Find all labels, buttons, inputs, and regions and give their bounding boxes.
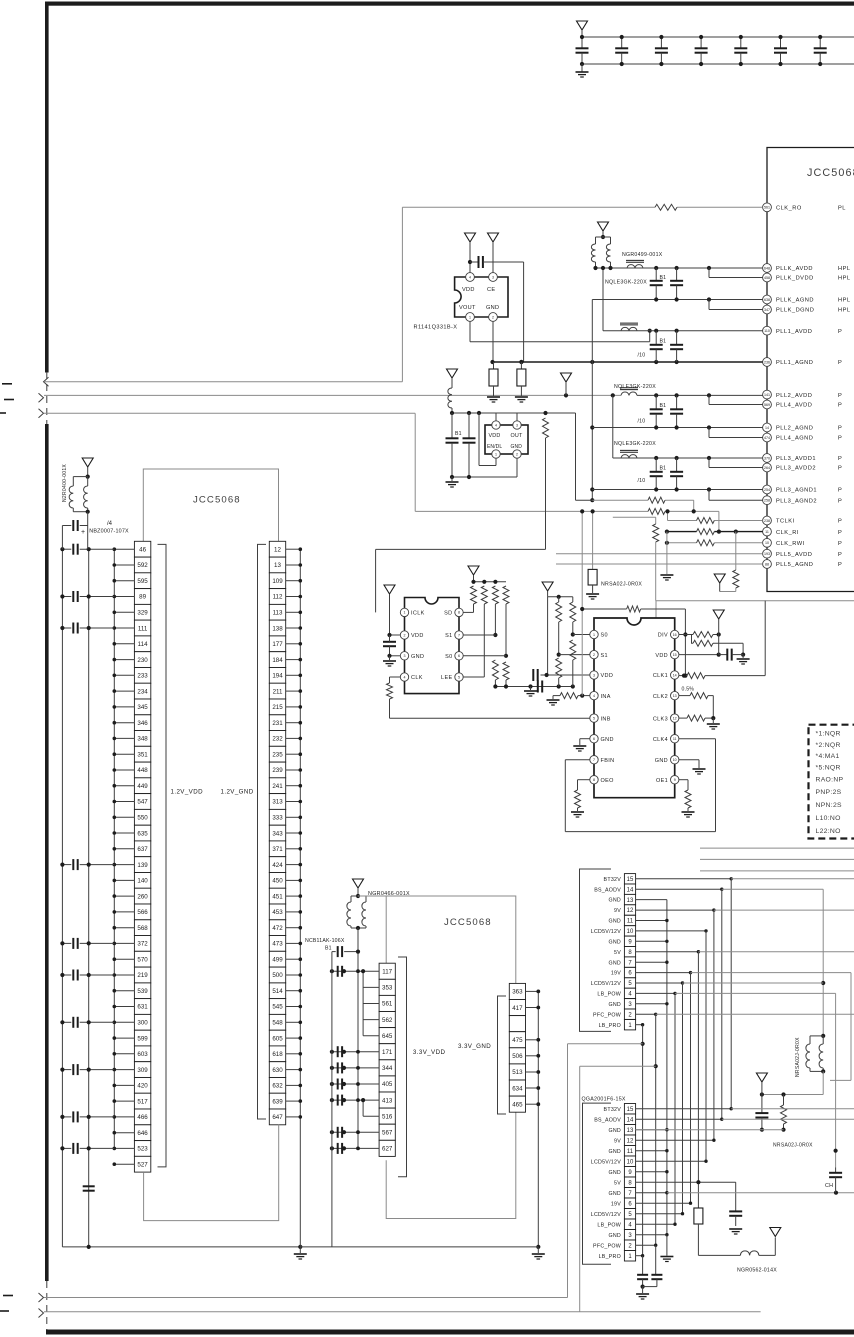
wire U5 DIV column <box>684 609 686 676</box>
wire power fan-out buses <box>636 877 733 1257</box>
svg-text:561: 561 <box>382 1001 393 1008</box>
svg-text:347: 347 <box>764 308 770 312</box>
svg-text:599: 599 <box>137 1035 148 1042</box>
power symbol (NGR0562) <box>770 1228 781 1237</box>
IC U4 pin 2 VDD <box>400 631 408 639</box>
wire PLL2_AGND rail <box>592 427 762 429</box>
connector 1.2V_VDD pin column <box>134 541 150 1172</box>
resistor (U5 S1 pull-down) <box>556 658 562 678</box>
IC U5 pin 15 VDD <box>671 650 679 658</box>
svg-text:117: 117 <box>382 969 392 976</box>
IC U5 pin 6 GND <box>590 735 598 743</box>
resistor (DIV pull-up B) <box>693 640 713 646</box>
IC U4 pin 1 ICLK <box>400 608 408 616</box>
svg-text:466: 466 <box>137 1114 148 1121</box>
ground (5V filter) <box>729 1228 742 1230</box>
resistor (CLK2 series) <box>679 695 690 697</box>
IC U4 pin 7 S1 <box>455 631 463 639</box>
svg-text:ICLK: ICLK <box>411 611 425 617</box>
wire U5 CLK1 row <box>679 675 687 677</box>
wire BS_AODV lower row extension <box>722 1118 854 1120</box>
svg-text:SD: SD <box>444 611 452 617</box>
IC U3 pin 4 VDD <box>495 413 497 421</box>
svg-text:/10: /10 <box>638 419 646 425</box>
svg-text:15: 15 <box>627 1107 634 1113</box>
svg-text:9V: 9V <box>614 1138 621 1144</box>
svg-text:CLK3: CLK3 <box>653 716 668 722</box>
svg-text:OUT: OUT <box>511 433 523 439</box>
svg-text:12: 12 <box>274 546 281 553</box>
svg-text:CLK4: CLK4 <box>653 737 668 743</box>
svg-text:BS_AODV: BS_AODV <box>594 887 621 893</box>
svg-text:B1: B1 <box>660 275 667 281</box>
svg-text:12: 12 <box>627 908 634 914</box>
net arrow (input, CLK_RO net) <box>44 377 49 386</box>
wire BS filter rail <box>822 1071 824 1094</box>
svg-text:110: 110 <box>764 329 770 333</box>
wire PFC_POW row extension <box>656 1013 854 1015</box>
page border top <box>46 2 854 6</box>
svg-text:PLL3_AVDD2: PLL3_AVDD2 <box>776 466 816 472</box>
svg-text:635: 635 <box>137 830 148 837</box>
wire analog ground bus (vertical) <box>591 300 593 501</box>
power symbol (PLL2 rail tie) <box>561 373 572 382</box>
svg-text:545: 545 <box>272 1004 283 1011</box>
IC U1 pin 238 TCLKI <box>763 516 843 525</box>
svg-text:PLL5_AVDD: PLL5_AVDD <box>776 552 812 558</box>
capacitor (1.2V input, polarized) <box>87 512 89 550</box>
wire LB_PRO to left edge <box>44 1297 568 1299</box>
svg-text:B1: B1 <box>455 431 462 437</box>
svg-text:637: 637 <box>137 846 148 853</box>
wire U4 GND pin <box>390 655 401 657</box>
svg-text:550: 550 <box>137 815 148 822</box>
svg-text:NCB11AK-106X: NCB11AK-106X <box>305 938 345 944</box>
IC U3 pin 1 EN/DL <box>492 450 500 458</box>
IC U5 pin 4 INA <box>590 691 598 699</box>
wire U5 DIV pin row <box>679 634 685 636</box>
svg-text:647: 647 <box>272 1114 283 1121</box>
wire PLL1_AGND rail <box>493 361 763 363</box>
IC U2 pin 3 CE <box>489 273 498 282</box>
svg-text:P: P <box>838 329 842 335</box>
wire PFC_POW to left edge <box>44 1311 761 1313</box>
svg-text:GND: GND <box>608 1170 621 1176</box>
svg-text:GND: GND <box>608 960 621 966</box>
resistor (pull, x=655 chain) <box>613 516 656 518</box>
wire U3 EN loop <box>495 458 497 465</box>
svg-text:HPL: HPL <box>838 308 851 314</box>
svg-text:1: 1 <box>469 315 471 319</box>
wire GND bus (connectors) <box>636 900 669 1237</box>
capacitor (U5 VDD left) <box>532 669 534 681</box>
capacitor (BS rail) <box>761 1095 763 1114</box>
IC U1 pin 561 CLK_RO <box>763 203 846 212</box>
svg-text:TCLKI: TCLKI <box>776 519 795 525</box>
note box (component table) <box>809 725 854 839</box>
svg-text:7: 7 <box>593 758 595 762</box>
IC U3 pin 3 OUT <box>516 413 518 421</box>
net arrow (output, PFC_POW) <box>39 1309 44 1318</box>
svg-text:NBZ0007-107X: NBZ0007-107X <box>89 529 129 535</box>
connector P1 (upper) bracket <box>580 869 612 1031</box>
resistor (ICLK pull) <box>543 418 549 438</box>
svg-text:S0: S0 <box>445 654 452 660</box>
svg-text:12: 12 <box>673 716 677 720</box>
svg-text:211: 211 <box>273 688 283 695</box>
svg-text:GND: GND <box>601 737 614 743</box>
svg-text:PL: PL <box>838 206 846 212</box>
svg-text:14: 14 <box>765 426 769 430</box>
svg-text:S0: S0 <box>601 633 608 639</box>
svg-text:344: 344 <box>382 1065 393 1072</box>
svg-text:449: 449 <box>137 783 148 790</box>
resistor (AGND sense) <box>648 497 665 503</box>
svg-text:6: 6 <box>593 737 595 741</box>
svg-text:184: 184 <box>272 657 283 664</box>
power symbol (PLLK supply) <box>598 222 609 231</box>
svg-text:4: 4 <box>404 675 406 679</box>
svg-text:14: 14 <box>627 1117 634 1123</box>
svg-text:10: 10 <box>765 541 769 545</box>
svg-text:GND: GND <box>608 919 621 925</box>
svg-text:472: 472 <box>272 925 283 932</box>
svg-text:*2:NQR: *2:NQR <box>816 742 841 749</box>
svg-text:11: 11 <box>627 1149 634 1155</box>
svg-text:2: 2 <box>404 633 406 637</box>
svg-text:N2R0400-001X: N2R0400-001X <box>62 464 68 502</box>
capacitor (U4 bypass) <box>383 641 396 643</box>
power symbol (1.2V supply) <box>82 458 93 467</box>
svg-text:46: 46 <box>139 546 146 553</box>
svg-text:PLL4_AVDD: PLL4_AVDD <box>776 403 812 409</box>
resistor (U5 S0 pull-up) <box>570 602 576 622</box>
svg-text:P: P <box>838 360 842 366</box>
svg-text:PLL3_AVDD1: PLL3_AVDD1 <box>776 456 816 462</box>
svg-text:5: 5 <box>458 675 460 679</box>
svg-text:NGR0499-001X: NGR0499-001X <box>622 252 663 258</box>
svg-text:139: 139 <box>137 862 148 869</box>
IC U4 pin 6 S0 <box>455 652 463 660</box>
svg-text:P: P <box>838 466 842 472</box>
svg-text:3: 3 <box>593 673 595 677</box>
IC U1 pin 370 PLL3_AVDD1 <box>763 454 843 463</box>
svg-text:PLLK_DVDD: PLLK_DVDD <box>776 276 814 282</box>
IC U4 pin 3 GND <box>400 652 408 660</box>
svg-text:GND: GND <box>608 1191 621 1197</box>
svg-text:309: 309 <box>137 1067 148 1074</box>
svg-text:PLL1_AGND: PLL1_AGND <box>776 360 813 366</box>
wire U5 OEO pull-down <box>578 779 590 781</box>
svg-text:562: 562 <box>382 1017 393 1024</box>
capacitor B1 (PLL2 #1) <box>655 395 657 409</box>
svg-text:363: 363 <box>512 989 523 996</box>
svg-text:4: 4 <box>593 694 595 698</box>
svg-text:PLL3_AGND1: PLL3_AGND1 <box>776 488 817 494</box>
svg-text:14: 14 <box>627 887 634 893</box>
wire 1.2V VDD bus + pin stubs <box>113 547 135 1166</box>
svg-text:260: 260 <box>137 893 148 900</box>
svg-text:111: 111 <box>138 625 148 632</box>
wire PLL1_AVDD rail <box>603 330 763 332</box>
net arrow (input, TCLK net) <box>39 409 44 418</box>
svg-text:16: 16 <box>673 633 677 637</box>
wire U4 strap rail <box>474 581 507 583</box>
svg-text:13: 13 <box>627 898 634 904</box>
IC U1 pin 648 PLLK_AVDD <box>763 264 851 273</box>
inductor pair N2R0400-001X <box>73 476 87 478</box>
svg-text:345: 345 <box>137 704 148 711</box>
power symbol (CLK_RI pull-up) <box>714 574 725 583</box>
svg-text:4: 4 <box>469 275 471 279</box>
svg-text:VDD: VDD <box>489 433 501 439</box>
wire PLL2_AVDD rail <box>637 394 763 396</box>
svg-text:10: 10 <box>627 1159 634 1165</box>
wire PFC route (left) <box>654 1064 658 1068</box>
svg-text:9V: 9V <box>614 908 621 914</box>
svg-text:465: 465 <box>512 1101 523 1108</box>
svg-text:13: 13 <box>274 562 281 569</box>
connector 3.3V_GND pin column <box>509 983 525 1112</box>
IC U1 pin 110 PLL1_AVDD <box>763 326 843 335</box>
svg-text:VOUT: VOUT <box>459 305 476 311</box>
IC U5 pin 11 CLK4 <box>671 735 679 743</box>
IC U1 pin 10 CLK_RWI <box>763 538 843 547</box>
IC U1 pin 236 PLL1_AGND <box>763 358 843 367</box>
wire 3.3V sub-bus (353/561/562/645) <box>362 971 364 1035</box>
IC U1 pin 569 PLL4_AVDD <box>763 400 843 409</box>
power symbol (U2 VDD) <box>465 233 476 242</box>
svg-text:3: 3 <box>492 275 494 279</box>
svg-text:11: 11 <box>673 737 677 741</box>
svg-text:HPL: HPL <box>838 298 851 304</box>
svg-text:GND: GND <box>608 1128 621 1134</box>
wire U3 OUT to AGND sense <box>575 413 577 500</box>
svg-text:194: 194 <box>272 673 283 680</box>
svg-text:NRSA02J-0R0X: NRSA02J-0R0X <box>795 1037 801 1077</box>
ground (bead) <box>586 593 599 595</box>
wire 1.2V ground return rail <box>62 1246 300 1248</box>
svg-text:GND: GND <box>511 444 523 450</box>
svg-text:LB_POW: LB_POW <box>597 1222 621 1228</box>
ground (3.3V block) <box>536 1245 540 1249</box>
svg-text:114: 114 <box>138 641 148 648</box>
IC U5 pin 14 CLK1 <box>671 671 679 679</box>
IC U1 pin 347 PLLK_DGND <box>763 305 851 314</box>
wire 3.3V GND bus <box>526 990 541 1247</box>
svg-text:499: 499 <box>272 956 283 963</box>
wire PLL3_AVDD1 rail <box>613 457 763 459</box>
wire CLK_RO net (left input to pin 561) <box>44 381 402 383</box>
ground (U3) <box>451 477 453 481</box>
IC U3 body <box>485 425 528 454</box>
svg-text:HPL: HPL <box>838 276 851 282</box>
capacitor (top bank #3) <box>660 37 662 48</box>
svg-text:R1141Q331B-X: R1141Q331B-X <box>414 325 458 331</box>
bracket 3.3V_GND <box>498 996 507 1114</box>
wire 3.3V outline loop <box>358 896 516 1219</box>
resistor network (0-ohm to ground #1) <box>493 362 495 369</box>
svg-text:595: 595 <box>137 578 148 585</box>
svg-text:2: 2 <box>593 653 595 657</box>
wire LB_POW row extension <box>675 992 836 994</box>
wire PLL2/PLL4 AVDD net <box>44 394 621 396</box>
svg-text:GND: GND <box>608 898 621 904</box>
IC U2 R1141Q331B-X body <box>455 277 508 317</box>
svg-text:PLLK_DGND: PLLK_DGND <box>776 308 814 314</box>
svg-text:351: 351 <box>137 751 148 758</box>
capacitor (PLL1 #2) <box>676 331 678 345</box>
svg-text:LCD5V/12V: LCD5V/12V <box>591 929 621 935</box>
ground (OEO) <box>571 811 584 813</box>
power symbol (U3 VDD) <box>447 369 458 378</box>
wire PLL5_AGND row <box>556 563 763 565</box>
capacitor B1 (PLLK #1) <box>655 268 657 281</box>
resistor (BS rail bleed) <box>783 1095 785 1106</box>
top supply rail <box>582 36 854 38</box>
ground (U5 INA) <box>552 696 554 699</box>
svg-text:639: 639 <box>272 1098 283 1105</box>
svg-text:P: P <box>838 519 842 525</box>
svg-text:NQLE3GK-220X: NQLE3GK-220X <box>614 441 656 447</box>
svg-text:236: 236 <box>764 360 770 364</box>
svg-text:112: 112 <box>273 594 283 601</box>
svg-text:RAO:NP: RAO:NP <box>816 777 844 784</box>
svg-text:3: 3 <box>516 423 518 427</box>
svg-text:627: 627 <box>382 1146 393 1153</box>
capacitor (strap filter) <box>537 681 539 693</box>
svg-text:566: 566 <box>137 909 148 916</box>
svg-text:GND: GND <box>608 1002 621 1008</box>
svg-text:VDD: VDD <box>411 633 424 639</box>
capacitor (PFC filter) <box>655 1245 657 1274</box>
ground (U5 VDD right) <box>742 655 744 658</box>
resistor (U5 DIV feedback top) <box>582 608 626 610</box>
svg-text:*5:NQR: *5:NQR <box>816 764 841 771</box>
svg-text:*1:NQR: *1:NQR <box>816 731 841 738</box>
svg-text:233: 233 <box>137 673 148 680</box>
resistor (CLK_RI pull-up) <box>735 532 737 570</box>
svg-text:DIV: DIV <box>658 633 668 639</box>
wire PLLK_DGND stub <box>708 300 710 310</box>
wire U4 CLK to U5 INB <box>389 699 391 718</box>
IC U2 pin 4 VDD <box>466 273 475 282</box>
wire ground rail extension <box>300 1246 538 1248</box>
svg-text:PLL4_AGND: PLL4_AGND <box>776 436 813 442</box>
svg-text:NRSA02J-0R0X: NRSA02J-0R0X <box>601 582 642 588</box>
bracket 1.2V_VDD <box>158 544 167 1167</box>
svg-text:239: 239 <box>272 767 283 774</box>
wire PLLK_DVDD stub <box>708 268 710 278</box>
svg-text:630: 630 <box>272 1067 283 1074</box>
svg-text:177: 177 <box>272 641 283 648</box>
svg-text:GND: GND <box>608 1149 621 1155</box>
wire column bottoms link <box>144 1125 279 1221</box>
svg-text:618: 618 <box>272 1051 283 1058</box>
wire AGND sense line (to TCLK net) <box>592 499 648 501</box>
IC U4 pin 5 LEE <box>455 673 463 681</box>
svg-text:11: 11 <box>765 530 769 534</box>
capacitor (U3 #2) <box>468 413 470 438</box>
wire PLL5_AVDD row <box>556 553 763 555</box>
svg-text:500: 500 <box>272 972 283 979</box>
ferrite bead NQLE3GK-220X (PLLK) <box>627 265 643 268</box>
svg-text:3.3V_VDD: 3.3V_VDD <box>413 1049 446 1056</box>
resistor network (0-ohm to ground #2) <box>520 362 522 369</box>
IC U1 pin 264 PLL3_AVDD2 <box>763 463 843 472</box>
IC U1 pin 474 PLL4_AGND <box>763 433 843 442</box>
resistor (DIV pull-up A) <box>693 632 713 638</box>
wire 3.3V sub-bus (413/516) <box>362 1100 364 1116</box>
power symbol (U2 CE) <box>488 233 499 242</box>
svg-text:474: 474 <box>764 436 770 440</box>
IC U5 pin 13 CLK2 <box>671 691 679 699</box>
svg-text:605: 605 <box>272 1035 283 1042</box>
svg-text:371: 371 <box>272 846 283 853</box>
svg-text:517: 517 <box>137 1098 148 1105</box>
svg-text:BS_AODV: BS_AODV <box>594 1117 621 1123</box>
IC U3 pin 2 GND <box>513 450 521 458</box>
capacitor (top bank #4) <box>700 37 702 48</box>
svg-text:JCC5068: JCC5068 <box>807 167 854 179</box>
ground (CLK3) <box>712 718 714 723</box>
power symbol (top cap bank) <box>577 21 588 30</box>
svg-text:NQLE3GK-220X: NQLE3GK-220X <box>605 280 647 286</box>
svg-text:450: 450 <box>272 878 283 885</box>
svg-text:PLLK_AGND: PLLK_AGND <box>776 298 814 304</box>
svg-text:631: 631 <box>137 1004 148 1011</box>
wire U5 S0 row <box>573 634 590 636</box>
svg-text:3.3V_GND: 3.3V_GND <box>458 1043 491 1050</box>
svg-text:CLK_RI: CLK_RI <box>776 530 799 536</box>
svg-text:HPL: HPL <box>838 266 851 272</box>
wire 9V row extension <box>714 909 854 911</box>
svg-text:LB_PRO: LB_PRO <box>599 1023 621 1029</box>
svg-text:19V: 19V <box>611 1201 621 1207</box>
resistor (series, CLK_RO) <box>655 204 677 210</box>
svg-text:632: 632 <box>272 1083 283 1090</box>
resistor (U5 INA pull) <box>560 693 578 699</box>
IC U5 pin 1 S0 <box>590 630 598 638</box>
svg-text:P: P <box>838 552 842 558</box>
capacitor B1 (U3 #1) <box>451 413 453 438</box>
capacitors (1.2V decoupling) + outer buses <box>60 544 114 1247</box>
capacitor (5V filter) <box>735 1182 737 1211</box>
ground (filter caps) <box>642 1287 644 1293</box>
resistor (CLK3 series) <box>679 717 687 719</box>
wire U5 INA feed <box>581 511 583 695</box>
svg-text:FBIN: FBIN <box>601 758 615 764</box>
svg-text:QGA2001F6-15X: QGA2001F6-15X <box>582 1097 626 1103</box>
resistor (S1 pull-up) <box>492 586 498 604</box>
wire PLL4_AVDD stub <box>708 395 710 404</box>
svg-text:P: P <box>838 488 842 494</box>
svg-text:INA: INA <box>601 694 611 700</box>
svg-text:GND: GND <box>608 939 621 945</box>
svg-text:PLL5_AGND: PLL5_AGND <box>776 562 813 568</box>
svg-text:215: 215 <box>272 704 283 711</box>
wire PLL3_AVDD2 stub <box>708 458 710 468</box>
svg-text:1: 1 <box>495 452 497 456</box>
svg-text:570: 570 <box>137 956 148 963</box>
wire TCLK input net (wire3) <box>44 412 415 414</box>
capacitor (top bank #2) <box>621 37 623 48</box>
connector P2 bracket <box>583 1103 612 1264</box>
svg-text:138: 138 <box>272 625 283 632</box>
svg-text:171: 171 <box>382 1049 393 1056</box>
inductor pair NGR0499-001X <box>596 236 611 238</box>
svg-text:513: 513 <box>512 1069 523 1076</box>
